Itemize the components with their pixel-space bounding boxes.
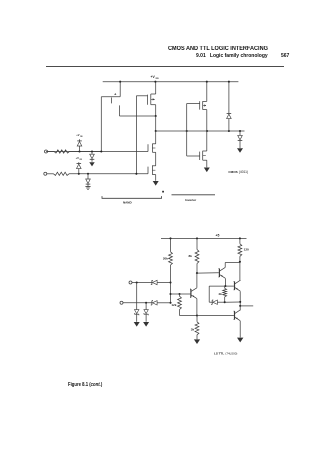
svg-text:Inverter: Inverter [185,198,197,202]
svg-text:(74LS00): (74LS00) [225,352,237,356]
svg-text:+V: +V [76,133,80,137]
svg-text:DD: DD [156,78,160,80]
svg-text:3k: 3k [191,327,195,331]
svg-text:120: 120 [244,247,249,251]
svg-text:NAND: NAND [123,201,132,205]
svg-text:LS TTL: LS TTL [214,352,224,356]
svg-text:+V: +V [76,156,80,160]
svg-text:DD: DD [80,159,83,161]
svg-text:DD: DD [80,136,83,138]
svg-text:4k: 4k [218,292,222,296]
svg-text:+5: +5 [216,233,220,237]
svg-text:CMOS: CMOS [228,170,237,174]
svg-text:8k: 8k [189,254,193,258]
svg-text:20k: 20k [163,257,168,261]
svg-text:12k: 12k [171,303,176,307]
svg-text:(4011): (4011) [239,170,248,174]
